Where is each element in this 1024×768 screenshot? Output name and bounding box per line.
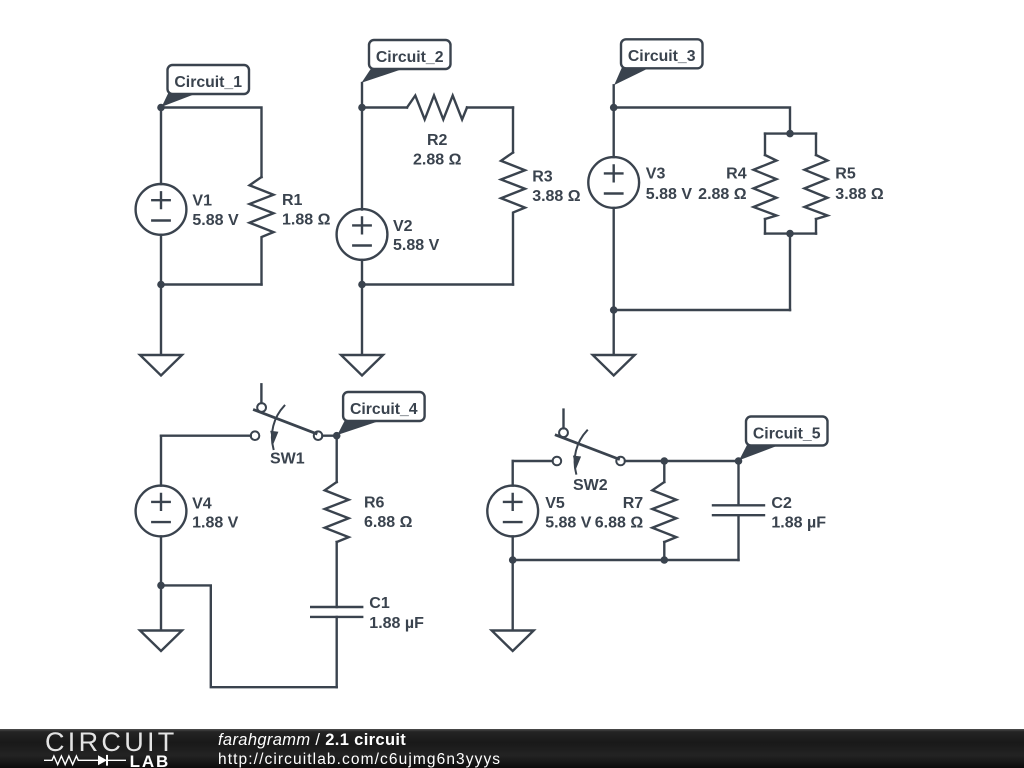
node A top C1 [157,104,165,112]
voltage source V5 [487,461,538,560]
node R7 bottom C5 [661,556,669,564]
svg-text:5.88 V: 5.88 V [393,237,440,254]
node switch C4 [333,432,341,440]
wire bottom C4 [161,585,337,687]
svg-text:R6: R6 [364,494,385,511]
resistor R7 [652,461,676,560]
capacitor C1 [311,607,362,687]
svg-text:Circuit_4: Circuit_4 [350,401,418,418]
svg-text:5.88 V: 5.88 V [646,186,693,203]
svg-text:C1: C1 [369,595,390,612]
svg-text:R2: R2 [427,132,448,149]
svg-text:Circuit_3: Circuit_3 [628,48,696,65]
voltage source V1 [136,108,187,285]
svg-text:V3: V3 [646,165,666,182]
wire left stub C2 [361,83,363,108]
footer url [218,751,501,768]
svg-text:6.88 Ω: 6.88 Ω [595,514,644,531]
svg-text:Circuit_1: Circuit_1 [174,74,242,91]
label Circuit_3 [614,39,702,85]
node top C2 [358,104,366,112]
label Circuit_1 [162,65,249,107]
wire top C3 [614,108,790,134]
node bottom C4 [157,582,165,590]
svg-text:R1: R1 [282,192,303,209]
svg-text:5.88 V: 5.88 V [545,514,592,531]
svg-text:R7: R7 [623,495,644,512]
node R7 top C5 [661,457,669,465]
svg-text:1.88 µF: 1.88 µF [771,514,826,531]
svg-text:2.88 Ω: 2.88 Ω [698,186,747,203]
wire top bar parallel [765,132,816,134]
wire bottom bar parallel [765,232,816,234]
wire top C1 [161,108,262,178]
resistor R1 [250,177,274,285]
label Circuit_4 [337,392,424,435]
CircuitLab logo [45,727,178,758]
node top bar C3 [786,130,794,138]
svg-text:R5: R5 [835,165,856,182]
svg-text:V1: V1 [192,192,212,209]
svg-text:V2: V2 [393,218,413,235]
voltage source V3 [588,108,639,311]
node C2 top C5 [735,457,743,465]
svg-text:SW1: SW1 [270,451,305,468]
node bottom C3 [610,306,618,314]
wire switch to node C4 [322,435,336,437]
wire bottom C5 [513,559,739,561]
label Circuit_2 [362,40,451,83]
switch SW2 [553,410,625,474]
svg-text:Circuit_2: Circuit_2 [376,49,444,66]
node top C3 [610,104,618,112]
node B bottom C1 [157,281,165,289]
svg-text:V4: V4 [192,495,212,512]
svg-text:1.88 V: 1.88 V [192,515,239,532]
svg-text:3.88 Ω: 3.88 Ω [835,186,884,203]
svg-text:1.88 Ω: 1.88 Ω [282,211,331,228]
node bottom bar C3 [786,230,794,238]
wire bottom C2 [362,283,513,285]
capacitor C2 [713,461,764,560]
wire left stub C3 [613,85,615,107]
wire bottom C3 [614,309,790,311]
footer title [218,731,406,750]
svg-text:5.88 V: 5.88 V [192,212,239,229]
svg-text:6.88 Ω: 6.88 Ω [364,514,413,531]
wire left C5 [513,460,553,462]
svg-text:2.88 Ω: 2.88 Ω [413,151,462,168]
svg-text:3.88 Ω: 3.88 Ω [532,188,581,205]
svg-text:C2: C2 [771,495,792,512]
node V5 bottom C5 [509,556,517,564]
svg-text:1.88 µF: 1.88 µF [369,615,424,632]
footer bar [0,729,1024,768]
resistor R5 [805,134,828,234]
ground C1 [140,285,182,376]
wire switch to nodes C5 [625,460,739,462]
resistor R6 [325,436,349,607]
voltage source V2 [337,108,388,285]
node bottom C2 [358,281,366,289]
switch SW1 [251,384,323,449]
voltage source V4 [136,436,187,586]
resistor R3 [501,108,525,285]
svg-text:R4: R4 [726,165,747,182]
wire bottom C1 [161,283,262,285]
ground C2 [341,285,383,376]
wire left C4 [161,435,251,437]
svg-text:Circuit_5: Circuit_5 [753,425,821,442]
ground C5 [492,560,534,651]
logo squiggle [43,753,131,768]
svg-text:SW2: SW2 [573,477,608,494]
svg-text:R3: R3 [532,168,553,185]
ground C4 [140,585,182,651]
wire right drop C3 [789,234,791,310]
svg-text:V5: V5 [545,495,565,512]
ground C3 [593,310,635,376]
resistor R4 [754,134,777,234]
label Circuit_5 [739,417,827,461]
resistor R2 [362,96,513,120]
